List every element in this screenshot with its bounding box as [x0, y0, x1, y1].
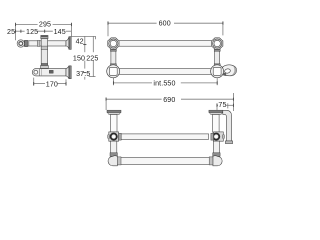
svg-text:37.5: 37.5: [76, 70, 90, 78]
svg-text:170: 170: [46, 81, 58, 89]
svg-text:75: 75: [218, 101, 226, 109]
svg-text:25: 25: [7, 28, 15, 36]
svg-text:225: 225: [86, 54, 98, 62]
svg-text:int.550: int.550: [153, 80, 175, 88]
svg-text:690: 690: [163, 96, 175, 104]
svg-text:145: 145: [54, 28, 66, 36]
svg-text:600: 600: [159, 19, 171, 27]
svg-text:42: 42: [76, 38, 84, 46]
svg-text:295: 295: [39, 20, 51, 28]
svg-text:125: 125: [26, 28, 38, 36]
svg-text:150: 150: [73, 54, 85, 62]
